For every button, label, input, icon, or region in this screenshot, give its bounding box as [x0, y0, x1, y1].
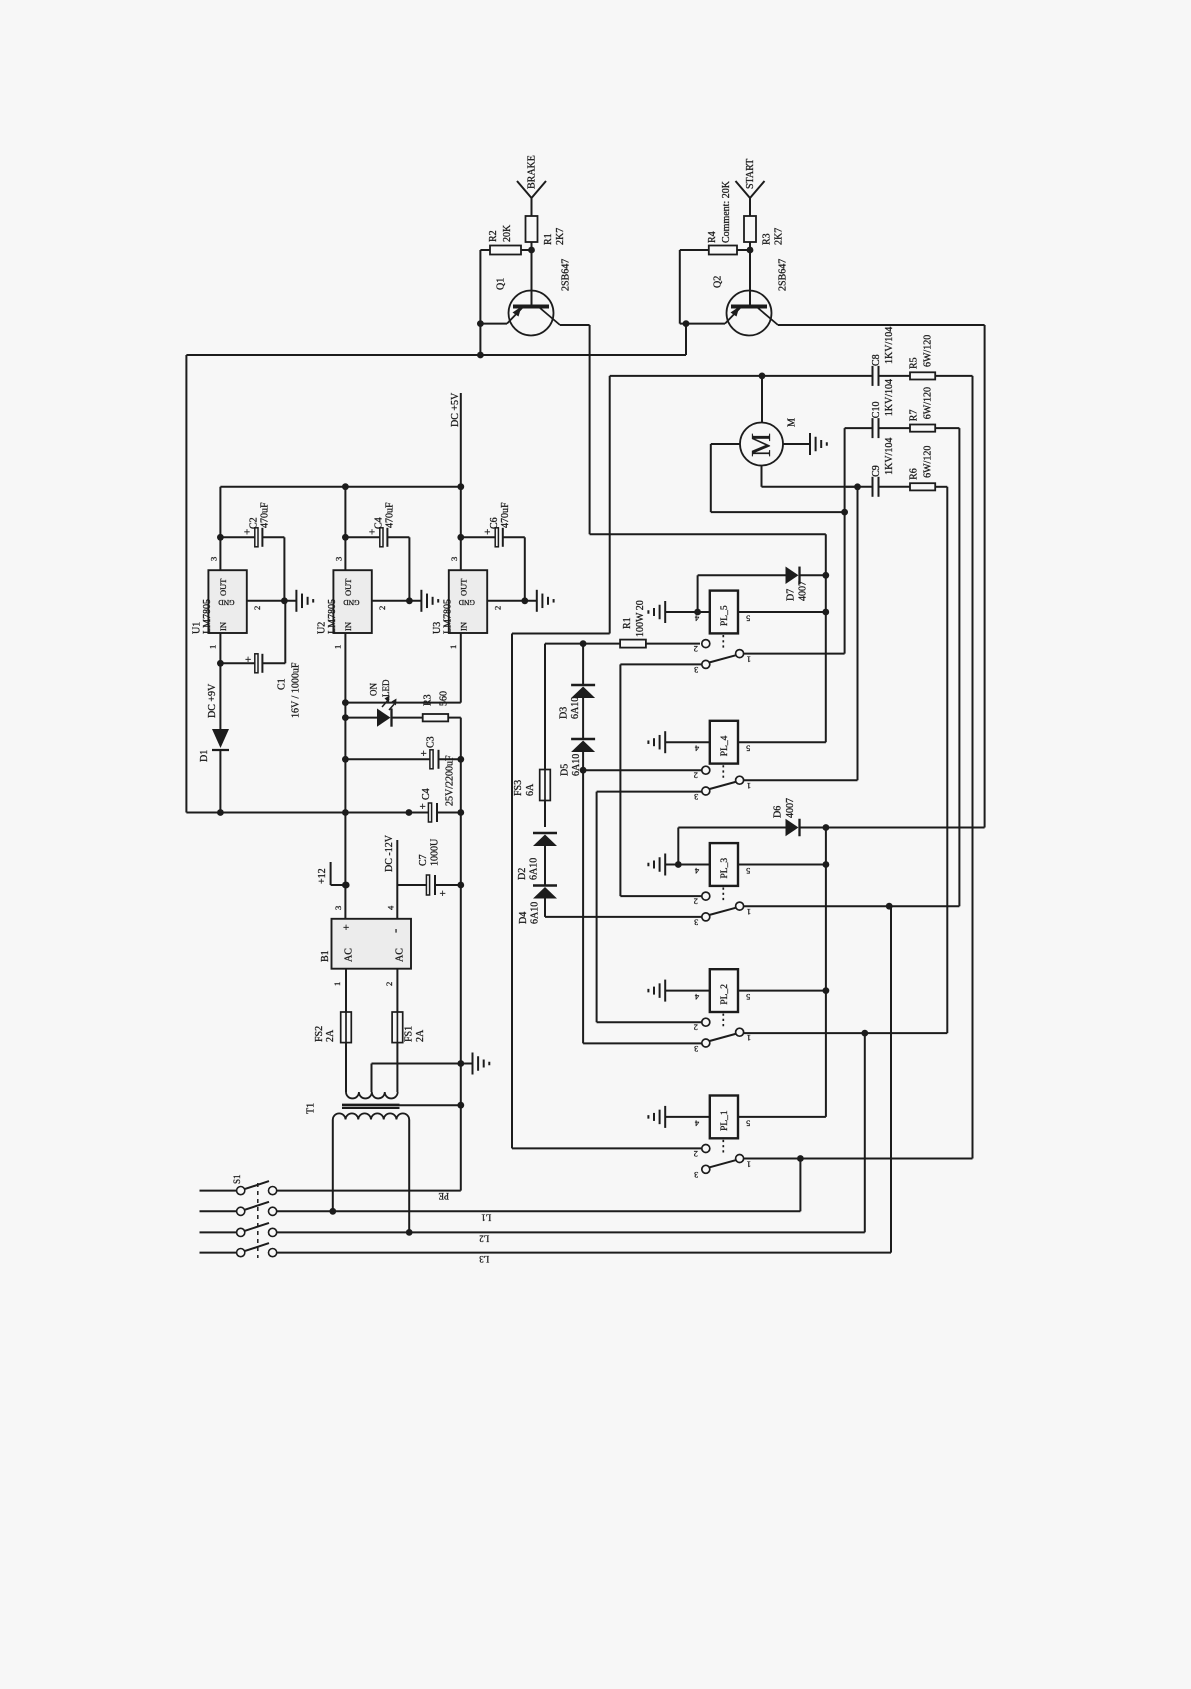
svg-text:M: M — [786, 418, 797, 427]
svg-text:2: 2 — [694, 771, 698, 781]
svg-text:3: 3 — [449, 557, 459, 561]
svg-text:2SB647: 2SB647 — [777, 259, 788, 291]
svg-text:6A10: 6A10 — [571, 754, 582, 776]
ground at PL_4 — [648, 731, 665, 753]
LED ON — [345, 679, 396, 727]
svg-text:6W/120: 6W/120 — [922, 446, 933, 478]
svg-text:C10: C10 — [871, 402, 882, 419]
wire — [479, 250, 481, 324]
svg-text:2A: 2A — [325, 1029, 336, 1042]
svg-text:PL_3: PL_3 — [720, 858, 730, 879]
wire collector Q1 — [560, 325, 826, 742]
svg-text:4007: 4007 — [797, 581, 808, 601]
svg-text:OUT: OUT — [343, 578, 353, 596]
capacitor C1 16V/1000uF — [217, 601, 301, 729]
diode D1 — [199, 729, 229, 813]
svg-text:16V / 1000uF: 16V / 1000uF — [290, 662, 301, 718]
svg-text:3: 3 — [694, 792, 698, 802]
svg-text:2: 2 — [384, 982, 394, 986]
label PE — [438, 1191, 449, 1201]
svg-text:LM7805: LM7805 — [202, 599, 213, 634]
svg-text:1: 1 — [333, 645, 343, 649]
svg-text:1KV/104: 1KV/104 — [884, 379, 895, 416]
svg-text:DC +5V: DC +5V — [450, 392, 461, 427]
svg-text:D5: D5 — [559, 764, 570, 776]
svg-text:470uF: 470uF — [500, 502, 511, 528]
svg-text:PL_1: PL_1 — [720, 1110, 730, 1131]
wire pin2 U1 to ground — [247, 597, 297, 604]
svg-text:L1: L1 — [481, 1212, 491, 1222]
svg-text:AC: AC — [343, 948, 354, 962]
resistor R1 100W 20 — [512, 376, 700, 1149]
svg-text:START: START — [745, 159, 756, 189]
svg-text:D4: D4 — [518, 912, 529, 924]
svg-text:2: 2 — [694, 1023, 698, 1033]
wire L2 riser — [864, 1033, 866, 1232]
wire PL_3 pin2 — [620, 895, 701, 897]
wire L3 row — [277, 1252, 891, 1254]
svg-text:BRAKE: BRAKE — [526, 155, 537, 189]
wire PL_1 pin1 — [744, 1155, 973, 1162]
svg-text:C3: C3 — [425, 736, 436, 748]
svg-text:D6: D6 — [772, 806, 783, 818]
svg-text:2A: 2A — [415, 1029, 426, 1042]
svg-text:ON: ON — [368, 683, 378, 696]
svg-text:U1: U1 — [192, 622, 203, 634]
node base Q1 — [528, 247, 535, 254]
svg-text:3: 3 — [694, 918, 698, 928]
svg-text:4007: 4007 — [785, 798, 796, 818]
diode D3 6A10 — [558, 644, 595, 739]
svg-text:R7: R7 — [908, 410, 919, 422]
svg-text:U2: U2 — [317, 622, 328, 634]
relay coil PL_5 — [665, 591, 826, 650]
svg-text:GND: GND — [458, 598, 475, 607]
wire motor supply bus — [610, 373, 846, 380]
wire PL_5 pin1 to motor — [744, 653, 845, 655]
svg-text:1: 1 — [332, 982, 342, 986]
transistor Q1 2SB647 — [495, 250, 571, 336]
svg-text:PL_5: PL_5 — [720, 605, 730, 626]
flag BRAKE net — [517, 155, 546, 216]
svg-text:2: 2 — [493, 606, 503, 610]
svg-text:1: 1 — [448, 645, 458, 649]
wire L2 row — [277, 1231, 865, 1233]
svg-text:Q2: Q2 — [712, 276, 723, 288]
svg-text:2: 2 — [694, 1149, 698, 1159]
label DC -12V — [384, 834, 398, 919]
diode D7 4007 — [694, 567, 829, 616]
svg-text:1: 1 — [208, 645, 218, 649]
svg-text:2: 2 — [694, 896, 698, 906]
svg-text:OUT: OUT — [218, 578, 228, 596]
ground at U1 — [296, 590, 313, 612]
relay coil PL_4 — [665, 721, 826, 780]
flag START net — [736, 159, 765, 216]
svg-text:R4: R4 — [707, 231, 718, 243]
svg-text:5: 5 — [746, 1118, 750, 1128]
diode D6 4007 — [675, 798, 985, 1117]
resistor R2 20K — [480, 224, 531, 255]
svg-text:IN: IN — [343, 622, 353, 631]
svg-text:Q1: Q1 — [495, 278, 506, 290]
wire PL_3 pin3 — [545, 916, 702, 918]
regulator U1 LM7805 — [192, 557, 263, 649]
transformer T1 core — [305, 1102, 464, 1114]
resistor R3 560 — [392, 691, 461, 759]
svg-text:2: 2 — [694, 644, 698, 654]
wire PL_4 pin3 down — [597, 792, 702, 1023]
svg-text:S1: S1 — [232, 1174, 242, 1184]
wire U2 pin1 column — [342, 633, 349, 919]
transformer T1 secondary winding — [346, 1064, 398, 1099]
svg-text:C2: C2 — [249, 517, 260, 529]
contact PL_5 — [694, 640, 751, 676]
ground at PL_3 — [648, 854, 665, 876]
node base Q2 — [747, 247, 754, 254]
svg-text:DC +9V: DC +9V — [207, 683, 218, 718]
resistor R4 Comment: 20K — [680, 180, 750, 254]
svg-text:R3: R3 — [422, 694, 433, 706]
svg-text:AC: AC — [394, 948, 405, 962]
wire PL_5 pin3 down — [620, 664, 701, 896]
wire PL_3 pin1 — [744, 903, 960, 910]
wire — [679, 250, 681, 324]
svg-text:1: 1 — [747, 1159, 751, 1169]
wire PL_4 pin1 — [744, 779, 858, 781]
wire emitter Q1 — [477, 320, 507, 358]
contact PL_3 — [694, 892, 751, 928]
wire PL_2 pin2 — [597, 1021, 702, 1023]
svg-text:C7: C7 — [418, 854, 429, 866]
svg-text:+12: +12 — [317, 868, 328, 884]
fuse FS2 2A — [314, 969, 352, 1092]
svg-text:C1: C1 — [276, 678, 287, 690]
wire L1 riser — [799, 1159, 801, 1212]
svg-text:1000U: 1000U — [429, 838, 440, 866]
svg-text:6W/120: 6W/120 — [922, 387, 933, 419]
wire PL_1 pin2 — [512, 1147, 702, 1149]
svg-text:C9: C9 — [871, 465, 882, 477]
wire right common column — [460, 759, 462, 1190]
label L2 — [479, 1233, 489, 1243]
svg-text:+: + — [440, 888, 446, 900]
svg-text:100W 20: 100W 20 — [635, 600, 646, 637]
svg-text:5: 5 — [746, 744, 750, 754]
svg-text:C4: C4 — [421, 788, 432, 800]
svg-text:D2: D2 — [517, 868, 528, 880]
capacitor C4 470uF — [342, 487, 409, 601]
fuse FS3 6A — [513, 644, 551, 827]
svg-text:25V/2200uF: 25V/2200uF — [444, 755, 455, 806]
svg-text:R5: R5 — [908, 357, 919, 369]
ground at PL_2 — [648, 980, 665, 1002]
relay coil PL_3 — [665, 843, 826, 902]
ground at transformer — [473, 1053, 490, 1075]
svg-text:1: 1 — [747, 1033, 751, 1043]
snubber C9 R6 6W/120 — [846, 438, 947, 1033]
svg-text:+: + — [421, 748, 427, 760]
transformer T1 primary winding — [333, 1113, 409, 1232]
wire collector Q2 — [778, 325, 985, 828]
svg-text:D7: D7 — [785, 589, 796, 601]
fuse FS1 2A — [392, 969, 426, 1092]
capacitor C4 25V/2200uF — [186, 755, 464, 822]
resistor R1 2K7 — [526, 216, 566, 250]
wire motor bottom — [762, 466, 861, 491]
svg-text:5: 5 — [746, 866, 750, 876]
svg-text:6A10: 6A10 — [528, 858, 539, 880]
svg-text:C4: C4 — [374, 517, 385, 529]
wire +5V rail — [220, 483, 464, 490]
wire pin2 U3 to ground — [487, 597, 537, 604]
wire C10 left riser — [844, 428, 846, 653]
svg-text:3: 3 — [333, 906, 343, 910]
svg-text:1KV/104: 1KV/104 — [884, 327, 895, 364]
label L3 — [479, 1254, 489, 1264]
svg-text:470uF: 470uF — [385, 502, 396, 528]
svg-text:3: 3 — [334, 557, 344, 561]
wire emitter Q2 — [680, 320, 725, 355]
svg-text:PE: PE — [438, 1191, 449, 1201]
svg-text:2: 2 — [252, 606, 262, 610]
wire motor left — [711, 444, 848, 516]
contact PL_4 — [694, 766, 751, 802]
ground at U2 — [421, 590, 438, 612]
capacitor C7 1000U — [397, 838, 464, 900]
svg-text:R1: R1 — [543, 233, 554, 245]
svg-text:3: 3 — [694, 1044, 698, 1054]
wire C9 left riser — [857, 487, 859, 780]
svg-text:-: - — [387, 929, 402, 933]
svg-text:3: 3 — [694, 1170, 698, 1180]
label L1 — [481, 1212, 491, 1222]
wire top bus — [186, 355, 686, 813]
svg-text:D1: D1 — [199, 750, 210, 762]
transistor Q2 2SB647 — [712, 250, 788, 336]
svg-text:OUT: OUT — [459, 578, 469, 596]
svg-text:FS1: FS1 — [403, 1026, 414, 1042]
svg-text:FS3: FS3 — [513, 780, 524, 796]
svg-text:4: 4 — [385, 905, 395, 910]
svg-text:1: 1 — [747, 781, 751, 791]
capacitor C2 470uF — [217, 487, 284, 601]
svg-text:C6: C6 — [489, 517, 500, 529]
svg-text:+: + — [420, 801, 426, 813]
svg-text:1: 1 — [747, 654, 751, 664]
svg-text:2: 2 — [377, 606, 387, 610]
svg-text:T1: T1 — [305, 1103, 316, 1114]
svg-text:C8: C8 — [871, 354, 882, 366]
svg-text:3: 3 — [694, 665, 698, 675]
svg-text:R1: R1 — [622, 617, 633, 629]
regulator U2 LM7805 — [317, 557, 388, 649]
switch S1 — [200, 1174, 277, 1258]
label +12 — [317, 862, 350, 888]
contact PL_1 — [694, 1145, 751, 1181]
wire motor right to ground — [783, 443, 810, 445]
svg-text:2K7: 2K7 — [555, 228, 566, 245]
ground at PL_1 — [648, 1106, 665, 1128]
wire PL_2 pin1 — [744, 987, 947, 1036]
svg-text:DC -12V: DC -12V — [384, 834, 395, 872]
svg-text:L3: L3 — [479, 1254, 489, 1264]
label DC +5V — [450, 392, 461, 487]
svg-text:LED: LED — [381, 679, 391, 697]
svg-text:LM7805: LM7805 — [327, 599, 338, 634]
wire L3 riser — [890, 906, 892, 1252]
svg-text:R2: R2 — [488, 230, 499, 242]
relay coil PL_1 — [665, 1096, 826, 1155]
snubber C8 R5 6W/120 — [846, 327, 973, 1159]
diode D2 6A10 — [517, 833, 557, 886]
wire center tap to ground — [372, 1060, 473, 1067]
diode D4 6A10 — [518, 886, 557, 925]
svg-text:5: 5 — [746, 613, 750, 623]
wire L1 row — [277, 1210, 801, 1212]
diode D5 6A10 — [559, 739, 595, 776]
svg-text:IN: IN — [218, 622, 228, 631]
relay coil PL_2 — [665, 969, 826, 1028]
svg-text:FS2: FS2 — [314, 1026, 325, 1042]
motor M — [740, 376, 797, 466]
svg-text:470uF: 470uF — [260, 502, 271, 528]
svg-text:L2: L2 — [479, 1233, 489, 1243]
svg-text:1KV/104: 1KV/104 — [884, 438, 895, 475]
node primary to L2 — [406, 1229, 413, 1236]
svg-text:+: + — [245, 654, 251, 666]
svg-text:5: 5 — [746, 992, 750, 1002]
capacitor C6 470uF — [457, 487, 524, 601]
svg-text:PL_4: PL_4 — [720, 735, 730, 756]
svg-text:R6: R6 — [908, 468, 919, 480]
svg-text:LM7805: LM7805 — [443, 599, 454, 634]
svg-text:20K: 20K — [502, 224, 513, 242]
ground at PL_5 — [648, 601, 665, 623]
wire pin2 U2 to ground — [372, 597, 422, 604]
svg-text:560: 560 — [438, 691, 449, 706]
resistor R3 2K7 — [744, 216, 784, 250]
svg-text:D3: D3 — [558, 707, 569, 719]
svg-text:U3: U3 — [432, 622, 443, 634]
svg-text:PL_2: PL_2 — [720, 984, 730, 1005]
svg-text:6W/120: 6W/120 — [922, 335, 933, 367]
svg-text:6A: 6A — [525, 783, 536, 796]
svg-text:6A10: 6A10 — [529, 902, 540, 924]
svg-text:2K7: 2K7 — [773, 228, 784, 245]
svg-text:Comment: 20K: Comment: 20K — [721, 180, 732, 243]
svg-text:B1: B1 — [320, 950, 331, 962]
label DC +9V — [207, 683, 218, 718]
svg-text:GND: GND — [218, 598, 235, 607]
wire PL_2 pin3 — [580, 767, 702, 1044]
node primary to L1 — [329, 1208, 336, 1215]
svg-text:IN: IN — [459, 622, 469, 631]
wire U2 U3 input rail — [342, 633, 461, 706]
wire PL_4 pin2 — [583, 769, 701, 771]
wire PE row — [277, 1190, 461, 1192]
ground at U3 — [537, 590, 554, 612]
svg-text:6A10: 6A10 — [570, 697, 581, 719]
svg-text:1: 1 — [747, 907, 751, 917]
snubber C10 R7 6W/120 — [845, 379, 960, 906]
svg-text:3: 3 — [209, 557, 219, 561]
svg-text:R3: R3 — [761, 233, 772, 245]
svg-text:GND: GND — [343, 598, 360, 607]
capacitor C3 25V/2200uF — [345, 736, 464, 768]
bridge rectifier B1 — [320, 905, 411, 986]
svg-text:M: M — [746, 433, 776, 457]
svg-text:2SB647: 2SB647 — [560, 259, 571, 291]
contact PL_2 — [694, 1018, 751, 1054]
svg-text:+: + — [343, 922, 349, 934]
regulator U3 LM7805 — [432, 557, 503, 649]
ground at motor — [810, 433, 827, 455]
